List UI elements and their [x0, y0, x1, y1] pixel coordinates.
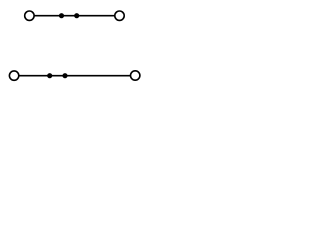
wire (upper level conductor) [34, 15, 116, 17]
terminal circle (lower right clamp point) [131, 71, 140, 80]
terminal circle (upper right clamp point) [115, 11, 124, 20]
junction dot (lower level, right) [62, 73, 67, 78]
junction dot (upper level, left) [59, 13, 64, 18]
junction dot (lower level, left) [47, 73, 52, 78]
terminal circle (lower left clamp point) [9, 71, 18, 80]
wire (lower level conductor) [19, 75, 132, 77]
junction dot (upper level, right) [74, 13, 79, 18]
terminal circle (upper left clamp point) [25, 11, 34, 20]
